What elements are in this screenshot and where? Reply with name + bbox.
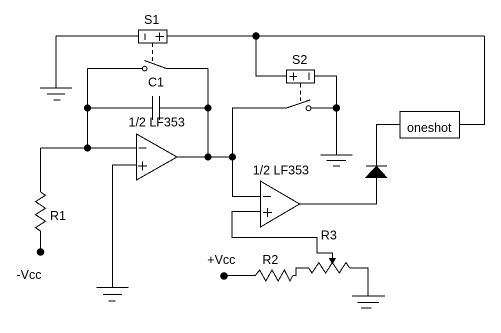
resistor R1 body	[36, 192, 46, 231]
wire R3 to ground	[350, 268, 369, 296]
svg-text:oneshot: oneshot	[407, 121, 452, 135]
switch S2 box	[286, 70, 314, 83]
switch S1 arm	[145, 61, 166, 69]
wire op1 noninverting input to ground	[113, 165, 137, 288]
node op1 output junction A	[204, 153, 211, 160]
wire switch S1 right lead	[166, 67, 208, 69]
diode D1 triangle	[366, 166, 387, 177]
wire S2 contact to junction	[311, 107, 337, 109]
ground bottom-right	[352, 296, 385, 308]
wire riser from op1 output up to S2 arm	[232, 108, 287, 157]
svg-text:C1: C1	[148, 76, 164, 90]
svg-text:S1: S1	[144, 13, 159, 27]
wire feedback left vertical	[87, 69, 89, 149]
capacitor C1 plates	[153, 96, 160, 120]
switch S1 box minus mark	[144, 33, 146, 40]
wire R2 to R3 jog	[293, 268, 309, 276]
switch S1 open contact	[142, 66, 147, 71]
wire op2 output to diode	[300, 178, 377, 204]
svg-text:1/2 LF353: 1/2 LF353	[253, 163, 309, 177]
op-amp U1 plus sign	[138, 162, 147, 171]
switch S1 box	[139, 30, 167, 43]
svg-text:R1: R1	[50, 209, 66, 223]
switch S2 box plus mark	[290, 73, 298, 81]
wire R1 bottom lead	[40, 231, 42, 250]
node S2 ground junction	[333, 104, 340, 111]
wire top rail left segment	[56, 35, 139, 37]
wire left rail down to ground	[55, 36, 57, 88]
wire diode to oneshot	[376, 125, 400, 166]
op-amp U2 triangle	[261, 181, 300, 227]
op-amp U2 plus sign	[263, 208, 272, 217]
potentiometer R3 wiper arrow	[330, 259, 335, 264]
svg-text:1/2 LF353: 1/2 LF353	[129, 115, 185, 129]
svg-text:+Vcc: +Vcc	[207, 253, 235, 267]
wire top rail right segment	[167, 35, 485, 37]
wire switch S1 left lead	[88, 68, 143, 70]
ground op1 plus input	[96, 288, 128, 302]
node C1 right junction	[204, 104, 211, 111]
wire R1 top lead	[40, 148, 42, 192]
op-amp U1 minus sign	[139, 147, 147, 149]
wire op1 inverting input	[41, 147, 137, 149]
svg-text:-Vcc: -Vcc	[17, 268, 42, 282]
wire S2 box right lead down to ground	[314, 76, 336, 155]
wire riser from op1 output down to op2 inverting input	[232, 157, 260, 196]
oneshot box	[400, 112, 460, 139]
wire +Vcc to R2	[224, 275, 255, 277]
switch S1 box plus mark	[155, 32, 164, 41]
capacitor C1 left lead	[88, 107, 153, 109]
op-amp U2 minus sign	[263, 195, 271, 197]
svg-text:R2: R2	[262, 253, 278, 267]
capacitor C1 right lead	[160, 107, 208, 109]
potentiometer R3 body	[309, 263, 350, 273]
switch S2 open contact	[306, 106, 311, 111]
wire feedback right vertical	[207, 68, 209, 157]
wire op1 output	[177, 156, 232, 158]
switch S2 box minus mark	[308, 73, 310, 81]
node top rail junction	[252, 32, 259, 39]
node +Vcc terminal	[220, 272, 228, 280]
node op1 output junction B	[229, 153, 236, 160]
diode D1 cathode bar	[366, 165, 387, 167]
node inverting input junction	[84, 144, 91, 151]
ground top-left	[40, 88, 72, 100]
node -Vcc terminal	[37, 248, 45, 256]
switch S1 actuator dashed link	[152, 43, 154, 62]
ground below S2	[320, 155, 352, 166]
switch S2 arm	[287, 100, 310, 108]
wire op2 noninverting network to R3 wiper	[232, 212, 332, 260]
switch S2 actuator dashed link	[299, 84, 301, 102]
wire S2 branch from top rail	[256, 36, 286, 76]
svg-text:R3: R3	[321, 229, 337, 243]
op-amp U1 triangle	[137, 134, 178, 180]
resistor R2 body	[255, 270, 292, 281]
wire oneshot output to top rail	[460, 36, 485, 125]
svg-text:S2: S2	[292, 53, 307, 67]
node C1 left junction	[84, 104, 91, 111]
